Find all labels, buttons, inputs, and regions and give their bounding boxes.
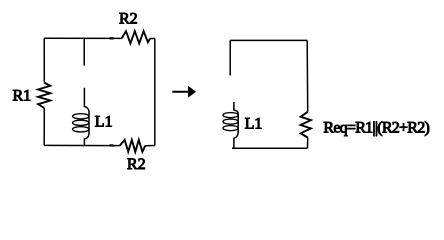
inductor L1 (right circuit) coil ring 3 <box>223 126 238 131</box>
wire right side of left circuit <box>154 39 156 146</box>
wire junction overlap on top wire <box>110 37 114 39</box>
inductor L1 (right circuit) coil ring 2 <box>223 119 238 124</box>
svg-text:R2: R2 <box>119 11 138 28</box>
resistor R2 (bottom) <box>120 140 145 152</box>
inductor L1 (right circuit) coil ring 1 <box>223 113 238 118</box>
wire top side of left circuit <box>44 37 121 39</box>
resistor R2 (top) <box>122 31 151 43</box>
wire middle branch stub from top wire <box>83 38 85 65</box>
wire left side stub of right circuit <box>229 40 231 75</box>
svg-text:R1: R1 <box>13 87 32 104</box>
wire left side upper of left circuit <box>43 38 45 82</box>
inductor L1 (left circuit) coil ring 1 <box>73 114 90 119</box>
wire top side of right circuit <box>230 39 307 41</box>
resistor Req <box>301 112 311 138</box>
wire from bottom R2 to bottom-right corner <box>145 145 155 147</box>
wire bottom side of left circuit <box>44 144 120 146</box>
wire right side lower of right circuit <box>307 138 309 149</box>
svg-text:L1: L1 <box>245 116 263 133</box>
inductor L1 (left circuit) coil ring 3 <box>73 127 90 132</box>
wire left side lower of left circuit <box>43 108 45 145</box>
svg-text:L1: L1 <box>95 113 113 130</box>
arrow head <box>188 86 196 98</box>
wire junction overlap on bottom wire <box>110 144 114 146</box>
inductor L1 (left circuit) leads and right side <box>84 88 89 146</box>
wire right side upper of right circuit <box>306 40 309 111</box>
svg-text:R2: R2 <box>127 156 146 173</box>
wire bottom side of right circuit <box>232 147 308 149</box>
arrow between circuits <box>172 91 188 93</box>
inductor L1 (left circuit) coil ring 2 <box>73 120 90 125</box>
wire from top R2 to top-right corner <box>150 38 155 40</box>
inductor L1 (right circuit) leads and right side <box>234 102 238 148</box>
resistor R1 <box>38 83 50 108</box>
svg-text:Req=R1||(R2+R2): Req=R1||(R2+R2) <box>323 120 429 137</box>
